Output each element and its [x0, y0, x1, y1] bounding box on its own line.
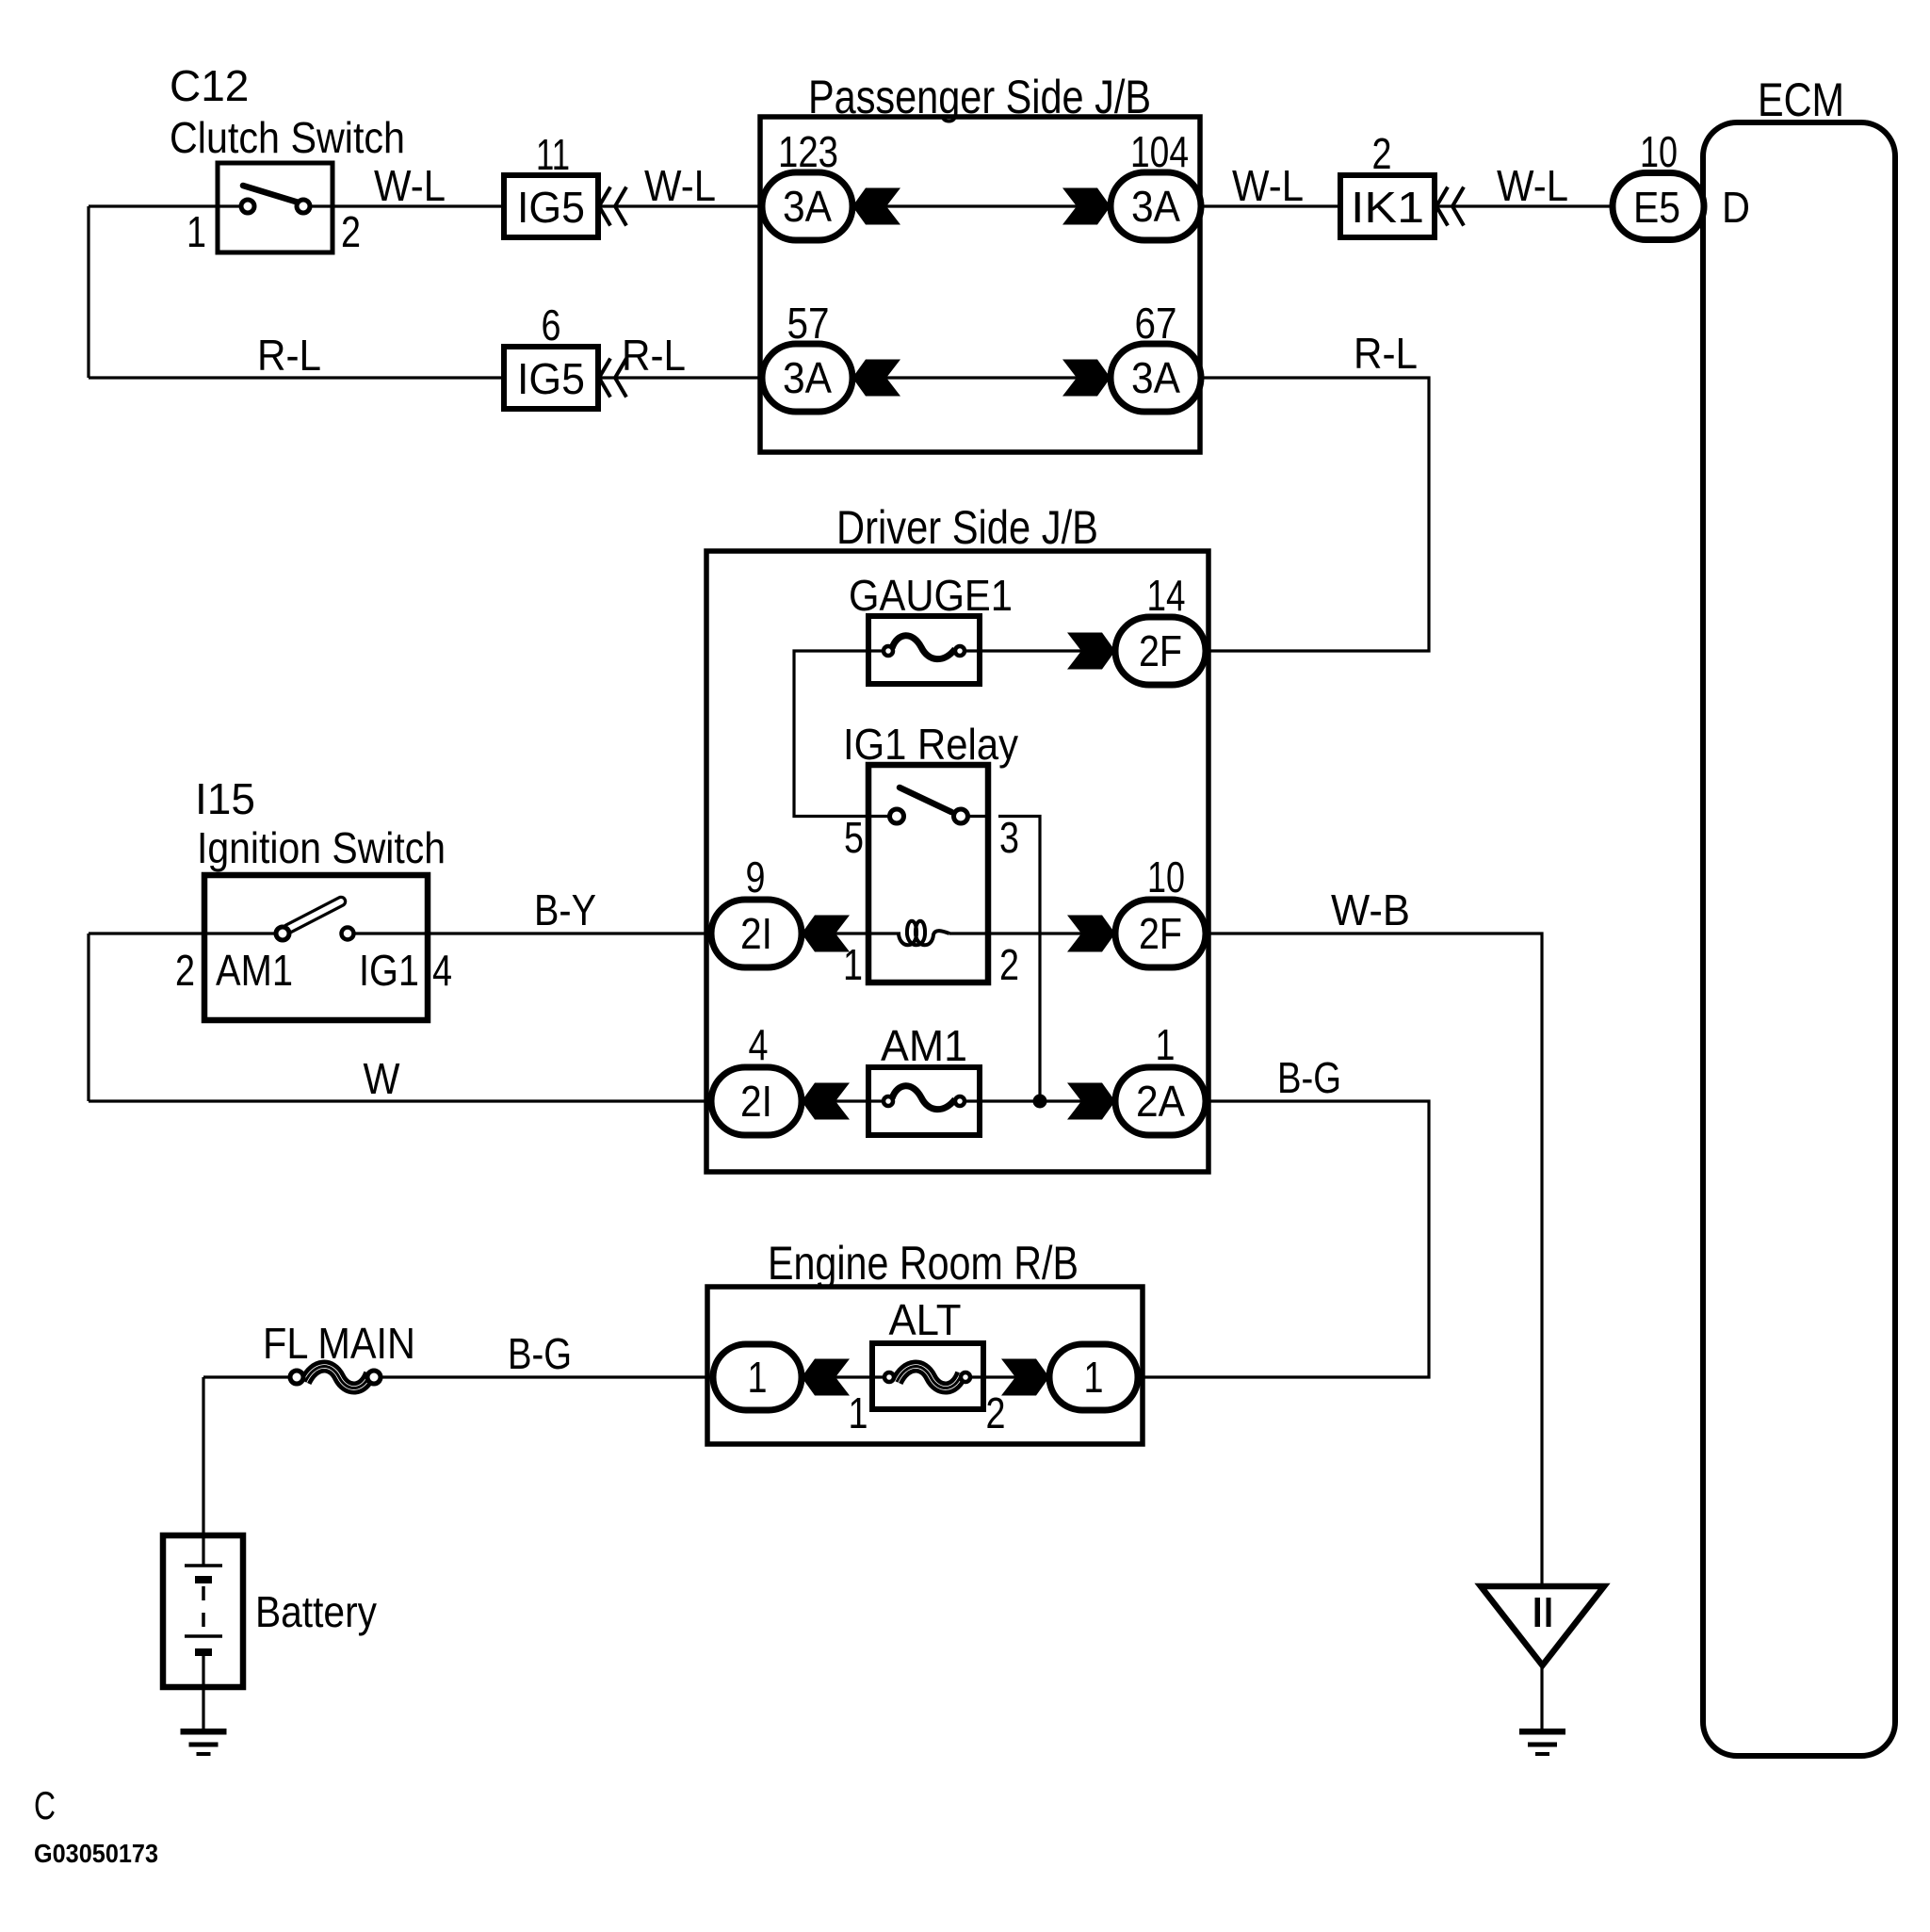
svg-text:E5: E5: [1633, 183, 1680, 232]
wire clutch interior right: [303, 204, 332, 207]
oval 1 engine right: [1049, 1344, 1138, 1410]
svg-text:W-L: W-L: [1232, 161, 1304, 210]
oval 57 3A: [762, 344, 852, 412]
chevron after IK1: [1436, 187, 1464, 226]
Passenger Side J/B box: [760, 117, 1200, 452]
svg-text:R-L: R-L: [257, 331, 321, 380]
clutch contact 2: [297, 200, 310, 213]
svg-text:AM1: AM1: [881, 1021, 967, 1070]
svg-text:104: 104: [1130, 127, 1189, 176]
svg-text:R-L: R-L: [1354, 329, 1418, 378]
arrow left AM1 row to 2I4: [802, 1083, 850, 1120]
svg-text:1: 1: [1084, 1353, 1104, 1402]
wire R-L row: IG5 (6) to passenger J/B oval 57: [598, 376, 762, 379]
svg-text:2I: 2I: [740, 1077, 772, 1126]
svg-text:3A: 3A: [783, 182, 832, 231]
wire relay interior coil row: [868, 932, 988, 934]
wire AM1 interior: [868, 1099, 980, 1102]
svg-text:IG5: IG5: [517, 183, 585, 232]
wire GAUGE1 fuse to 2F(14) oval: [980, 649, 1115, 652]
wire W-L row: IK1 to E5: [1435, 204, 1614, 207]
wire battery to ground: [202, 1687, 204, 1729]
svg-text:B-G: B-G: [508, 1329, 572, 1378]
svg-text:B-G: B-G: [1277, 1053, 1341, 1102]
ignition contact AM1: [276, 927, 289, 940]
ECM box: [1703, 122, 1895, 1756]
wire ALT interior: [872, 1375, 983, 1378]
relay blade: [900, 787, 951, 812]
svg-text:1: 1: [843, 940, 863, 989]
svg-text:11: 11: [536, 130, 570, 179]
relay IG1 box: [868, 765, 988, 982]
svg-text:Engine Room R/B: Engine Room R/B: [768, 1237, 1079, 1290]
wire GAUGE1 interior: [868, 649, 980, 652]
wire W-L row: IG5 (11) to passenger J/B oval 123: [598, 204, 762, 207]
oval 2F 14: [1115, 617, 1206, 685]
relay contact 5: [890, 809, 904, 823]
wire battery interior bottom: [202, 1656, 204, 1687]
svg-text:FL MAIN: FL MAIN: [263, 1319, 415, 1368]
clutch switch blade: [243, 186, 299, 203]
oval 2I 9: [711, 900, 802, 967]
svg-text:IK1: IK1: [1351, 183, 1424, 232]
svg-text:3A: 3A: [783, 353, 832, 402]
svg-text:C12: C12: [170, 61, 249, 110]
wire W-L row: left bus to clutch switch: [89, 204, 218, 207]
svg-text:2: 2: [999, 940, 1019, 989]
wire ignition interior left: [204, 932, 275, 934]
wire W-L row: clutch switch to IG5 (11): [332, 204, 504, 207]
wire clutch interior left: [218, 204, 248, 207]
svg-text:10: 10: [1640, 127, 1678, 176]
svg-text:ALT: ALT: [889, 1295, 962, 1344]
wire GAUGE1 fuse left loop to relay pin 5: [794, 651, 876, 817]
connector IG5 pin 11 box: [504, 175, 598, 237]
svg-text:GAUGE1: GAUGE1: [849, 571, 1013, 620]
svg-text:AM1: AM1: [216, 946, 293, 995]
wire B-Y row: bus to ignition switch: [89, 932, 204, 934]
wire battery interior top: [202, 1535, 204, 1566]
svg-text:R-L: R-L: [622, 331, 686, 380]
svg-text:W-B: W-B: [1331, 885, 1410, 934]
svg-text:I15: I15: [195, 774, 255, 823]
oval 1 engine left: [713, 1344, 802, 1410]
battery box: [163, 1535, 243, 1687]
svg-text:1: 1: [187, 207, 206, 256]
wire battery top to FL MAIN: [203, 1375, 289, 1378]
fuse GAUGE1 element: [892, 636, 955, 659]
wire W row: bus to driver J/B 2I(4): [89, 1099, 711, 1102]
wire battery vertical: [202, 1377, 204, 1535]
svg-text:Ignition Switch: Ignition Switch: [197, 823, 446, 872]
svg-text:2F: 2F: [1139, 626, 1182, 675]
fuse AM1 element: [892, 1086, 955, 1110]
wire B-Y row: ignition switch to driver J/B 2I(9): [428, 932, 711, 934]
svg-text:2: 2: [1372, 129, 1392, 178]
chevron after IG5 pin 11: [599, 187, 626, 226]
battery dashed center: [202, 1586, 205, 1633]
svg-text:3: 3: [999, 813, 1019, 862]
battery plate long 2: [185, 1634, 222, 1638]
wire B-G: 2A(1) right, down, to engine room R/B: [1139, 1101, 1429, 1377]
connector IK1 pin 2 box: [1340, 175, 1435, 237]
svg-text:W: W: [364, 1054, 401, 1103]
svg-text:2I: 2I: [740, 909, 772, 958]
wire triangle apex to ground: [1540, 1665, 1543, 1729]
wire ignition interior right: [355, 932, 428, 934]
svg-text:Clutch Switch: Clutch Switch: [170, 113, 405, 162]
clutch contact 1: [241, 200, 254, 213]
svg-text:ECM: ECM: [1758, 73, 1844, 126]
svg-text:67: 67: [1135, 299, 1177, 348]
arrow left row1 passenger: [852, 188, 900, 225]
svg-text:2: 2: [175, 946, 195, 995]
clutch switch C12 box: [218, 163, 332, 252]
svg-text:57: 57: [787, 299, 830, 348]
oval 2F 10: [1115, 900, 1206, 967]
svg-text:D: D: [1722, 183, 1750, 232]
Engine Room R/B box: [707, 1287, 1143, 1444]
fuse AM1 box: [868, 1067, 980, 1135]
arrow left row2 passenger: [852, 360, 900, 397]
wire engine row inside R/B: [802, 1375, 1049, 1378]
relay coil: [899, 921, 949, 946]
svg-text:123: 123: [778, 127, 838, 176]
svg-text:IG5: IG5: [517, 354, 585, 403]
ignition switch I15 box: [204, 875, 428, 1020]
ground below triangle: [1519, 1729, 1565, 1735]
fusible link ALT element: [897, 1367, 962, 1388]
oval 2A 1: [1115, 1067, 1206, 1135]
battery plate short 1: [195, 1576, 212, 1583]
wire left bus vertical clutch pin1 to R-L row: [87, 206, 89, 378]
arrow right coil row to 2F10: [1067, 916, 1115, 952]
svg-text:5: 5: [844, 813, 864, 862]
wire coil row: relay box to 2F(10): [949, 932, 1116, 934]
svg-text:IG1: IG1: [359, 946, 419, 995]
svg-text:1: 1: [1156, 1020, 1176, 1069]
wire R-L row: bus to IG5 (6): [89, 376, 504, 379]
battery plate short 2: [195, 1648, 212, 1656]
svg-text:3A: 3A: [1131, 353, 1180, 402]
battery plate long 1: [185, 1564, 222, 1567]
svg-text:W-L: W-L: [374, 161, 446, 210]
svg-text:B-Y: B-Y: [534, 885, 596, 934]
svg-text:2: 2: [341, 207, 361, 256]
svg-text:Passenger Side J/B: Passenger Side J/B: [808, 71, 1151, 123]
svg-text:W-L: W-L: [644, 161, 716, 210]
oval 123 3A: [762, 172, 852, 240]
ignition contact IG1: [342, 928, 354, 940]
wire left bus vertical ignition pin2 to W row: [87, 934, 89, 1101]
oval 2I 4: [711, 1067, 802, 1135]
svg-text:1: 1: [849, 1388, 868, 1437]
oval 67 3A: [1111, 344, 1201, 412]
svg-text:W-L: W-L: [1497, 161, 1568, 210]
connector IG5 pin 6 box: [504, 347, 598, 409]
svg-text:IG1 Relay: IG1 Relay: [843, 720, 1018, 769]
wire W-B: 2F(10) right, down to ground triangle: [1207, 934, 1542, 1586]
wire FL MAIN to engine room R/B oval 1: [374, 1375, 716, 1378]
svg-text:10: 10: [1147, 852, 1185, 901]
wire inside passenger J/B row 2: [852, 376, 1111, 379]
svg-text:2A: 2A: [1136, 1077, 1185, 1126]
wire coil row: 2I(9) to relay box: [802, 932, 868, 934]
svg-text:C: C: [34, 1783, 56, 1827]
chevron after IG5 pin 6: [599, 359, 626, 398]
wire inside passenger J/B row 1: [852, 204, 1111, 207]
svg-text:4: 4: [432, 946, 452, 995]
svg-text:Battery: Battery: [255, 1587, 377, 1636]
wire W-L row: passenger J/B to IK1: [1200, 204, 1340, 207]
svg-text:2F: 2F: [1139, 909, 1182, 958]
wire relay interior pin5: [868, 815, 897, 818]
arrow left coil row to 2I9: [802, 916, 850, 952]
arrow right engine row: [1001, 1359, 1049, 1396]
wire R-L: oval 67 right, down, into driver J/B 2F(14): [1201, 378, 1429, 651]
svg-text:6: 6: [542, 300, 561, 349]
wire relay pin 3 to junction: [998, 817, 1040, 1102]
arrow left engine row: [802, 1359, 850, 1396]
ground below battery: [181, 1729, 227, 1735]
svg-text:G03050173: G03050173: [34, 1839, 158, 1868]
oval E5: [1613, 173, 1704, 240]
svg-text:2: 2: [986, 1388, 1006, 1437]
svg-text:Driver Side J/B: Driver Side J/B: [836, 501, 1098, 554]
ignition switch lever: [288, 901, 341, 929]
fusible link ALT box: [872, 1343, 983, 1409]
wire AM1 row inside driver J/B: [802, 1099, 1115, 1102]
relay contact 3: [954, 809, 968, 823]
arrow right GAUGE1 to 2F14: [1067, 633, 1115, 670]
svg-text:1: 1: [748, 1353, 768, 1402]
oval 104 3A: [1111, 172, 1201, 240]
fusible link FL MAIN: [305, 1367, 370, 1388]
arrow right row2 passenger: [1062, 360, 1111, 397]
Driver Side J/B box: [706, 551, 1208, 1172]
svg-text:3A: 3A: [1131, 182, 1180, 231]
ground triangle II: [1481, 1586, 1604, 1665]
arrow right row1 passenger: [1062, 188, 1111, 225]
arrow right AM1 row to 2A1: [1067, 1083, 1115, 1120]
fuse GAUGE1 box: [868, 616, 980, 684]
svg-text:14: 14: [1147, 571, 1186, 620]
svg-text:4: 4: [749, 1020, 769, 1069]
svg-text:9: 9: [746, 852, 766, 901]
junction dot on AM1 row: [1033, 1095, 1047, 1109]
wire relay interior pin3: [961, 815, 988, 818]
